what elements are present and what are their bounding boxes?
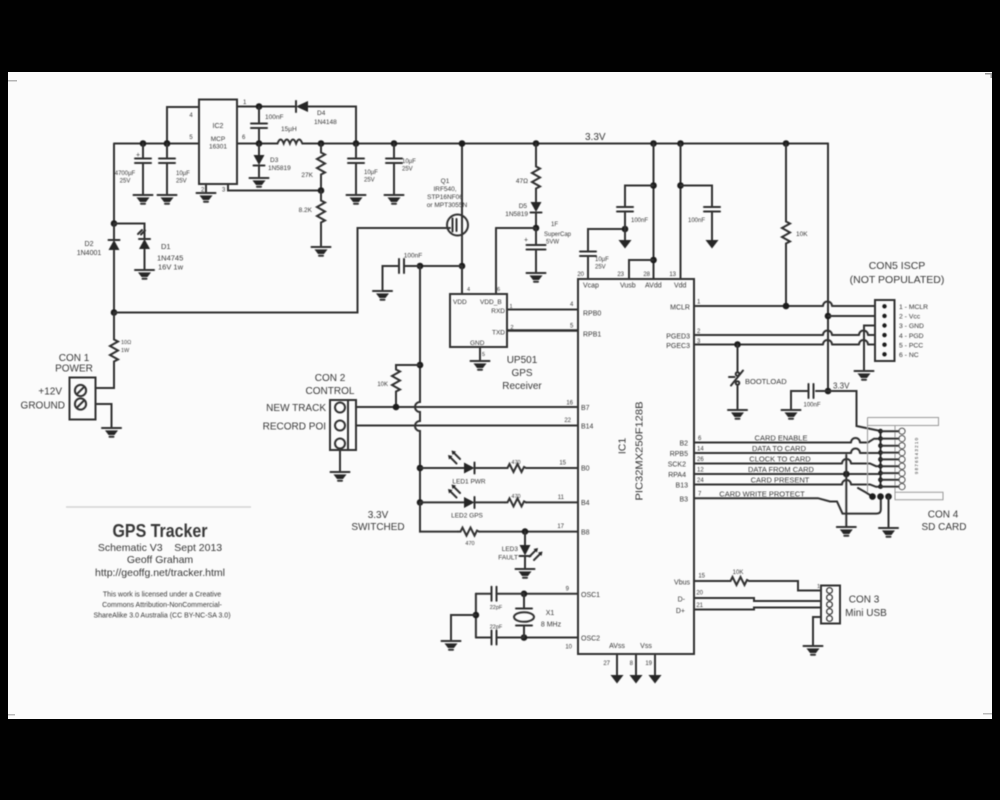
svg-text:3.3V: 3.3V — [833, 382, 850, 391]
svg-text:47Ω: 47Ω — [516, 178, 528, 185]
svg-text:DATA TO CARD: DATA TO CARD — [752, 444, 807, 453]
svg-text:4: 4 — [467, 287, 470, 293]
capacitor 100nF Vdd — [677, 140, 720, 279]
svg-text:OSC2: OSC2 — [581, 636, 600, 643]
connector CON3 Mini USB — [817, 584, 887, 624]
svg-text:Receiver: Receiver — [502, 381, 542, 392]
resistor 10K MCLR pullup — [782, 140, 808, 306]
svg-text:1: 1 — [817, 584, 820, 590]
resistor 27K — [301, 140, 325, 190]
wire D+ — [676, 603, 821, 615]
svg-text:B8: B8 — [581, 530, 590, 537]
svg-text:+: + — [524, 237, 528, 244]
svg-text:PGED3: PGED3 — [666, 334, 690, 341]
svg-text:CARD WRITE PROTECT: CARD WRITE PROTECT — [719, 490, 805, 499]
regulator IC2 MCP16301 — [199, 100, 237, 185]
transistor Q1 MOSFET — [427, 140, 468, 266]
wire 3.3V rail label — [585, 132, 606, 143]
svg-text:MCLR: MCLR — [670, 305, 690, 312]
svg-text:D-: D- — [678, 597, 686, 604]
svg-text:AVss: AVss — [609, 643, 625, 650]
wire OSC2 — [521, 634, 578, 650]
svg-text:OSC1: OSC1 — [581, 592, 600, 599]
svg-text:20: 20 — [577, 272, 584, 278]
svg-text:10K: 10K — [377, 382, 388, 388]
svg-text:15µH: 15µH — [281, 126, 297, 133]
wire input rail left of IC2 — [114, 144, 199, 224]
svg-text:1N4001: 1N4001 — [77, 250, 102, 257]
svg-text:B3: B3 — [679, 497, 688, 504]
svg-text:RPB5: RPB5 — [670, 451, 688, 458]
svg-text:12: 12 — [697, 468, 704, 474]
svg-text:100nF: 100nF — [688, 218, 705, 224]
diode D3 1N5819 — [250, 144, 292, 187]
capacitor 22pF bottom — [476, 625, 524, 645]
svg-text:RECORD POI: RECORD POI — [263, 422, 326, 433]
label UP501 GPS Receiver — [502, 355, 542, 392]
resistor 470 — [516, 140, 540, 190]
svg-text:RPB0: RPB0 — [583, 311, 601, 318]
ic IC1 PIC32MX250F128B — [578, 279, 694, 654]
diode D5 1N5819 — [505, 190, 541, 228]
svg-text:D3: D3 — [270, 157, 279, 164]
svg-text:1N4148: 1N4148 — [314, 119, 337, 126]
svg-text:11: 11 — [558, 495, 565, 501]
pin 3 feedback wire — [222, 184, 321, 194]
pin labels PIC left column — [581, 311, 601, 643]
capacitor 100nF 3.3V — [782, 384, 829, 419]
svg-text:Vdd: Vdd — [674, 283, 687, 290]
svg-text:CON 1: CON 1 — [59, 353, 90, 364]
svg-text:27: 27 — [603, 661, 610, 667]
svg-text:10µF: 10µF — [176, 171, 190, 177]
capacitor 100nF AVdd — [617, 140, 657, 279]
wire sd pulldown ground — [837, 455, 856, 536]
wire Vbus with 10K — [674, 570, 821, 591]
svg-text:16: 16 — [566, 401, 573, 407]
svg-text:Schematic V3 Sept 2013: Schematic V3 Sept 2013 — [98, 542, 222, 554]
svg-text:20: 20 — [696, 591, 703, 597]
pin 2 ground — [197, 184, 216, 202]
capacitor 10uF 25V output b — [385, 140, 417, 204]
svg-text:CLOCK TO CARD: CLOCK TO CARD — [749, 455, 811, 464]
svg-text:10µF: 10µF — [595, 257, 609, 263]
wire PGED3 — [666, 329, 875, 341]
svg-text:5 - PCC: 5 - PCC — [899, 342, 923, 349]
wire gps ground — [471, 347, 490, 370]
svg-text:5: 5 — [482, 352, 485, 358]
svg-text:25V: 25V — [402, 167, 413, 173]
gps module UP501 — [450, 287, 507, 347]
svg-text:15: 15 — [698, 574, 705, 580]
svg-text:POWER: POWER — [55, 364, 93, 375]
wire Vusb jog — [629, 257, 657, 279]
svg-text:GPS Tracker: GPS Tracker — [113, 520, 208, 541]
svg-text:10µF: 10µF — [364, 170, 378, 176]
svg-text:3.3V: 3.3V — [585, 132, 606, 143]
wire DATA FROM CARD — [668, 465, 880, 479]
svg-text:Geoff Graham: Geoff Graham — [127, 554, 194, 566]
crystal X1 8MHz — [514, 594, 562, 638]
wire VDD_B feed — [495, 228, 497, 294]
wire CARD WRITE PROTECT — [679, 490, 880, 514]
svg-text:http://geoffg.net/tracker.html: http://geoffg.net/tracker.html — [95, 567, 225, 579]
wire 3.3V to SD socket — [828, 391, 881, 431]
wire CON3 ground — [804, 617, 823, 655]
svg-text:10: 10 — [565, 645, 572, 651]
svg-text:UP501: UP501 — [507, 355, 538, 366]
svg-text:D1: D1 — [161, 242, 171, 251]
svg-text:CARD PRESENT: CARD PRESENT — [751, 476, 810, 485]
svg-text:Vbus: Vbus — [674, 580, 690, 587]
svg-text:PIC32MX250F128B: PIC32MX250F128B — [635, 401, 646, 500]
switch BOOTLOAD — [728, 345, 787, 419]
svg-text:VDD: VDD — [453, 299, 467, 306]
svg-text:28: 28 — [643, 272, 650, 278]
svg-text:This work is licensed under a: This work is licensed under a Creative — [103, 592, 221, 599]
wire DATA TO CARD — [670, 444, 881, 458]
svg-text:8.2K: 8.2K — [299, 207, 313, 214]
svg-text:16301: 16301 — [209, 144, 227, 151]
wire CARD PRESENT — [676, 476, 881, 497]
svg-text:GND: GND — [470, 340, 485, 347]
resistor 10K pullup — [377, 362, 423, 411]
svg-text:SWITCHED: SWITCHED — [351, 522, 404, 533]
svg-text:100nF: 100nF — [265, 114, 283, 121]
capacitor 10uF 25V input — [158, 140, 191, 204]
svg-text:22pF: 22pF — [490, 625, 503, 631]
title block — [66, 507, 251, 620]
capacitor 100nF switched rail — [373, 253, 423, 300]
wire RXD to PIC — [507, 302, 578, 310]
wire NEW TRACK to PIC B7 — [356, 401, 578, 408]
capacitor 1F supercap — [524, 222, 572, 282]
wire 3.3V down to ICSP Vcc — [825, 144, 875, 392]
capacitor 10uF 25V output a — [347, 144, 379, 204]
wire switched rail down feed — [415, 266, 420, 532]
svg-text:ShareAlike 3.0 Australia (CC B: ShareAlike 3.0 Australia (CC BY-NC-SA 3.… — [93, 613, 230, 620]
svg-text:100nF: 100nF — [404, 253, 422, 260]
svg-text:1 - MCLR: 1 - MCLR — [899, 304, 928, 311]
svg-text:470: 470 — [511, 494, 520, 500]
wire PGEC3 — [666, 339, 875, 350]
resistor 8.2K — [299, 187, 331, 256]
wire gate sense long run — [114, 228, 450, 313]
svg-text:IC1: IC1 — [617, 438, 629, 455]
svg-text:D5: D5 — [519, 203, 528, 210]
svg-text:1F: 1F — [551, 222, 558, 228]
svg-text:CON 4: CON 4 — [928, 510, 959, 521]
corner artifacts — [8, 80, 17, 82]
connector CON2 CONTROL — [306, 373, 356, 450]
svg-text:Vusb: Vusb — [620, 283, 636, 290]
svg-text:2 - Vcc: 2 - Vcc — [899, 314, 921, 321]
connector CON4 SD CARD socket — [868, 418, 967, 534]
svg-text:AVdd: AVdd — [645, 283, 662, 290]
svg-text:10µF: 10µF — [402, 159, 416, 165]
svg-text:FAULT: FAULT — [498, 555, 518, 562]
svg-text:16V 1w: 16V 1w — [158, 263, 184, 272]
node battery sense junction — [111, 309, 118, 316]
svg-text:3.3V: 3.3V — [368, 510, 389, 521]
svg-text:27K: 27K — [301, 172, 313, 179]
svg-text:CARD ENABLE: CARD ENABLE — [755, 434, 808, 443]
svg-text:VDD_B: VDD_B — [480, 299, 502, 306]
svg-text:SCK2: SCK2 — [668, 462, 686, 469]
svg-text:17: 17 — [557, 524, 564, 530]
svg-text:PGEC3: PGEC3 — [666, 343, 690, 350]
resistor 10ohm 1W — [96, 313, 132, 389]
svg-text:LED2 GPS: LED2 GPS — [451, 513, 483, 520]
svg-text:25V: 25V — [120, 179, 131, 185]
capacitor 10uF Vcap — [580, 226, 628, 279]
svg-text:8 MHz: 8 MHz — [541, 622, 562, 629]
svg-text:Q1: Q1 — [441, 178, 450, 185]
svg-text:4700µF: 4700µF — [115, 171, 136, 177]
svg-text:2: 2 — [511, 325, 514, 331]
svg-text:B2: B2 — [679, 441, 688, 448]
svg-text:19: 19 — [645, 661, 652, 667]
svg-text:STP16NF06: STP16NF06 — [427, 194, 463, 201]
svg-text:Mini USB: Mini USB — [845, 608, 887, 619]
svg-text:LED3: LED3 — [502, 546, 519, 553]
svg-text:or MPT3055N: or MPT3055N — [427, 202, 468, 209]
svg-text:10K: 10K — [733, 570, 744, 576]
node 3.3V sd feed — [825, 382, 850, 395]
capacitor 100nF boost — [251, 107, 283, 147]
svg-text:4 - PGD: 4 - PGD — [899, 333, 924, 340]
svg-text:RPA4: RPA4 — [668, 472, 686, 479]
svg-text:100nF: 100nF — [631, 218, 648, 224]
pin 1 boost wire — [237, 100, 296, 141]
wire MCLR — [670, 300, 875, 312]
svg-text:470: 470 — [465, 541, 474, 547]
svg-text:CON5 ISCP: CON5 ISCP — [869, 260, 926, 272]
svg-text:BOOTLOAD: BOOTLOAD — [745, 377, 787, 386]
wire CON2 ground — [331, 450, 350, 481]
svg-text:1: 1 — [510, 304, 513, 310]
svg-text:B4: B4 — [581, 500, 590, 507]
svg-text:26: 26 — [697, 457, 704, 463]
svg-text:CON 3: CON 3 — [849, 595, 880, 606]
svg-text:13: 13 — [669, 272, 676, 278]
svg-text:10K: 10K — [796, 231, 808, 238]
svg-text:D+: D+ — [676, 608, 685, 615]
svg-text:3 - GND: 3 - GND — [899, 323, 924, 330]
pin labels PIC bottom — [609, 643, 652, 650]
svg-text:470: 470 — [511, 460, 520, 466]
svg-text:24: 24 — [697, 478, 704, 484]
svg-text:RXD: RXD — [491, 308, 505, 315]
svg-text:CONTROL: CONTROL — [306, 386, 355, 397]
svg-text:14: 14 — [697, 447, 704, 453]
diode D2 1N4001 — [77, 220, 120, 312]
svg-text:22pF: 22pF — [490, 605, 503, 611]
connector CON5 ICSP — [850, 260, 945, 361]
svg-text:SuperCap: SuperCap — [544, 232, 572, 238]
wire TXD to PIC — [507, 324, 578, 332]
svg-text:5VW: 5VW — [546, 240, 559, 246]
wire CON1 ground pin — [96, 404, 122, 437]
label NEW TRACK / RECORD POI — [263, 403, 327, 433]
diode D1 1N4745 zener — [114, 224, 184, 279]
svg-text:RPB1: RPB1 — [583, 332, 601, 339]
svg-text:NEW TRACK: NEW TRACK — [266, 403, 326, 414]
svg-text:B13: B13 — [676, 483, 689, 490]
svg-text:25V: 25V — [595, 265, 606, 271]
node switched 3.3V — [420, 263, 465, 294]
pin 4 loop wire — [164, 107, 199, 147]
led LED2 GPS row — [417, 485, 578, 520]
svg-text:1W: 1W — [121, 348, 130, 354]
svg-text:(NOT POPULATED): (NOT POPULATED) — [850, 274, 945, 286]
svg-text:23: 23 — [617, 272, 624, 278]
label ICSP pin names — [899, 304, 928, 359]
inductor 15uH — [278, 126, 303, 144]
svg-text:1N5819: 1N5819 — [505, 211, 528, 218]
svg-text:DATA FROM CARD: DATA FROM CARD — [748, 465, 815, 474]
white schematic page — [8, 72, 992, 719]
svg-text:IRF540,: IRF540, — [433, 186, 456, 193]
svg-text:6 - NC: 6 - NC — [899, 352, 919, 359]
pin labels PIC top — [577, 272, 686, 290]
svg-text:X1: X1 — [546, 610, 555, 617]
svg-text:1N5819: 1N5819 — [268, 165, 291, 172]
diode D4 1N4148 — [296, 101, 359, 147]
svg-text:CON 2: CON 2 — [315, 373, 346, 384]
svg-text:6: 6 — [497, 287, 500, 293]
svg-text:15: 15 — [559, 461, 566, 467]
wire ICSP ground — [855, 326, 876, 380]
svg-text:B14: B14 — [581, 424, 594, 431]
wire OSC1 — [521, 587, 578, 598]
node sd bottom pins — [869, 493, 898, 536]
led LED1 PWR row — [417, 451, 578, 486]
wire crystal ground — [442, 594, 480, 650]
svg-text:100nF: 100nF — [803, 403, 820, 409]
connector CON1 POWER — [21, 353, 96, 420]
svg-text:Vcap: Vcap — [583, 283, 599, 290]
svg-text:MCP: MCP — [211, 136, 225, 143]
wire D- — [678, 591, 821, 604]
svg-text:25V: 25V — [364, 178, 375, 184]
svg-text:22: 22 — [564, 418, 571, 424]
svg-text:B7: B7 — [581, 405, 590, 412]
label 3.3V SWITCHED — [351, 510, 404, 533]
svg-text:21: 21 — [696, 603, 703, 609]
svg-text:GPS: GPS — [511, 368, 532, 379]
wire RECORD POI to PIC B14 — [356, 418, 578, 426]
svg-text:+12V: +12V — [38, 387, 62, 398]
led LED3 FAULT row — [420, 502, 578, 577]
svg-text:B0: B0 — [581, 466, 590, 473]
svg-text:+: + — [136, 152, 140, 159]
svg-text:SD CARD: SD CARD — [921, 522, 966, 533]
svg-text:IC2: IC2 — [213, 123, 224, 130]
svg-text:25V: 25V — [176, 179, 187, 185]
wire CARD ENABLE — [679, 434, 880, 448]
svg-text:10Ω: 10Ω — [121, 340, 131, 346]
wire CLOCK TO CARD — [668, 455, 881, 469]
svg-text:9 8 7 6 5 4 3 2 1 0: 9 8 7 6 5 4 3 2 1 0 — [914, 437, 919, 474]
svg-text:D4: D4 — [317, 110, 326, 117]
node supercap junction — [496, 225, 539, 244]
svg-text:LED1 PWR: LED1 PWR — [452, 479, 486, 486]
svg-text:D2: D2 — [85, 241, 94, 248]
svg-text:Commons Attribution-NonCommerc: Commons Attribution-NonCommercial- — [102, 602, 222, 609]
capacitor 22pF top — [476, 587, 524, 611]
svg-text:1N4745: 1N4745 — [157, 254, 183, 263]
ground pins AVss Vss — [603, 654, 623, 684]
svg-text:TXD: TXD — [492, 330, 505, 337]
svg-text:GROUND: GROUND — [21, 401, 65, 412]
node 3.3V rail (output side of IC2 to right end) — [237, 143, 828, 145]
svg-text:Vss: Vss — [640, 643, 652, 650]
capacitor 4700uF 25V — [115, 140, 153, 204]
